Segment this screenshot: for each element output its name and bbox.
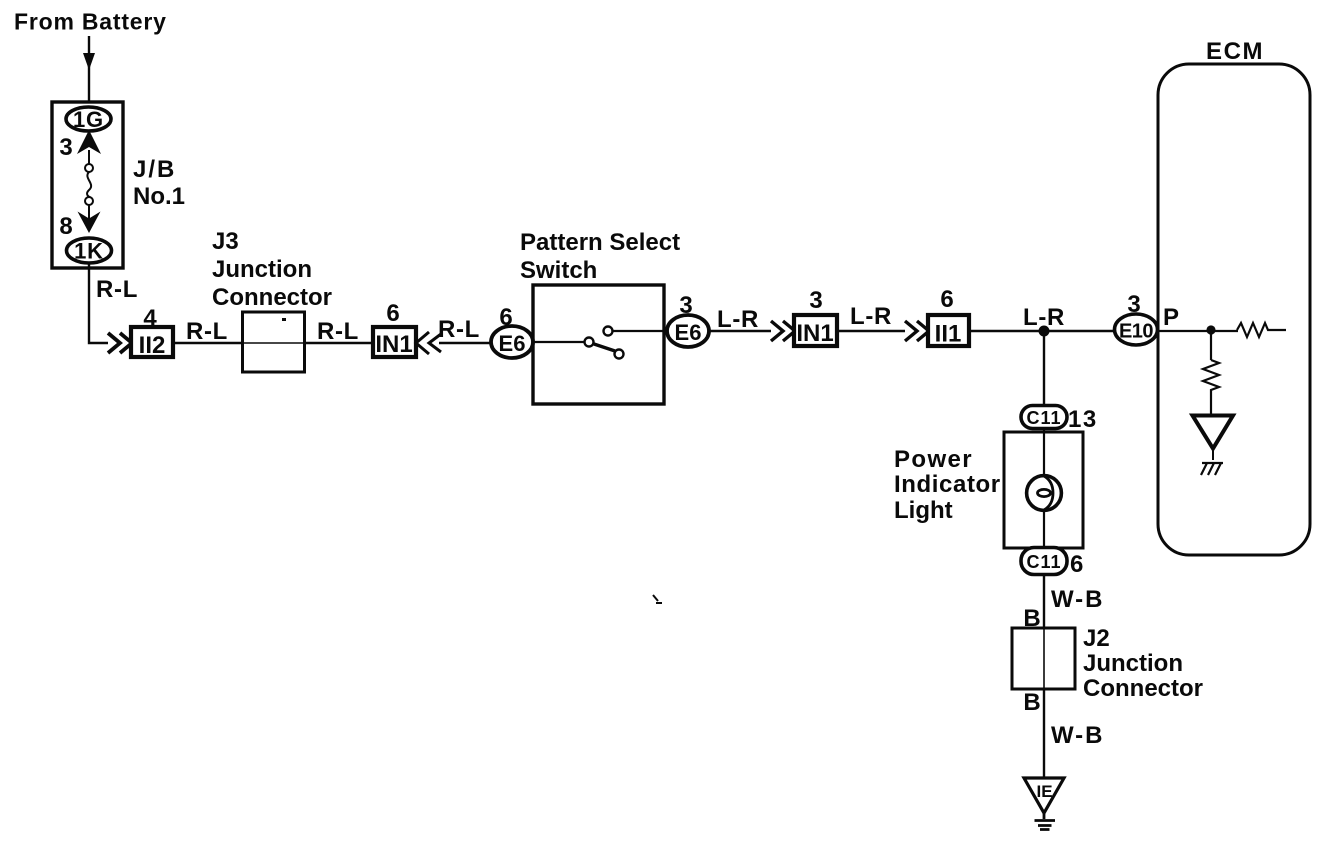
svg-text:3: 3 [59, 134, 72, 161]
svg-text:1G: 1G [73, 107, 104, 132]
svg-text:J3: J3 [212, 228, 239, 255]
svg-text:6: 6 [940, 286, 953, 313]
svg-text:C11: C11 [1026, 552, 1061, 572]
connector terminal C11 (bottom) [1021, 548, 1067, 575]
connector terminal E6 (left) [491, 326, 533, 358]
circuit breaker element wire [88, 150, 90, 164]
svg-text:L-R: L-R [850, 303, 892, 330]
chassis ground marks 777 [1201, 463, 1223, 475]
svg-text:IN1: IN1 [375, 331, 412, 358]
svg-text:From Battery: From Battery [14, 9, 167, 35]
connector terminal C11 (top) [1021, 406, 1067, 429]
svg-text:3: 3 [809, 287, 822, 314]
splice arrow into II1 [905, 321, 929, 341]
splice arrow out of IN1 [416, 332, 441, 354]
diode/output stage triangle [1193, 416, 1234, 449]
svg-text:W-B: W-B [1051, 722, 1105, 749]
power indicator light box [1004, 432, 1083, 548]
svg-text:No.1: No.1 [133, 183, 185, 210]
svg-text:II2: II2 [139, 332, 166, 359]
connector IN1 (right) [794, 315, 837, 346]
svg-text:R-L: R-L [186, 318, 228, 345]
wire E6 to IN1 (L-R) [709, 330, 771, 332]
svg-text:R-L: R-L [317, 318, 359, 345]
junction connector J2 [1043, 628, 1045, 689]
connector terminal 1G [66, 107, 111, 131]
wire IN1 to II1 (L-R) [836, 330, 905, 332]
svg-text:Junction: Junction [1083, 650, 1183, 677]
svg-text:E6: E6 [499, 331, 526, 356]
resistor (vertical, ECM) [1203, 360, 1219, 417]
branch wire junction to C11 [1043, 336, 1045, 406]
wire II1 to E10 (L-R) [969, 330, 1115, 332]
splice arrow into IN1 [771, 321, 795, 341]
wire 1K down and right (R-L) [89, 263, 108, 343]
ground symbol [1035, 813, 1056, 830]
junction block J/B No.1 [52, 102, 123, 268]
junction node inside ECM [1206, 325, 1215, 334]
svg-text:ECM: ECM [1206, 38, 1264, 65]
svg-text:W-B: W-B [1051, 586, 1105, 613]
switch input wire [533, 341, 584, 343]
lamp bulb [1027, 476, 1062, 511]
svg-text:Power: Power [894, 446, 973, 473]
svg-text:J/B: J/B [133, 156, 176, 183]
svg-text:Light: Light [894, 497, 953, 524]
svg-text:1K: 1K [74, 239, 104, 264]
svg-text:J2: J2 [1083, 625, 1110, 652]
svg-text:B: B [1023, 689, 1040, 716]
junction node to C11 branch [1039, 326, 1050, 337]
ground point IE triangle [1024, 778, 1064, 813]
svg-text:6: 6 [1070, 551, 1083, 578]
svg-text:L-R: L-R [717, 306, 759, 333]
arrowhead on battery feed wire [83, 53, 95, 70]
svg-text:Switch: Switch [520, 257, 597, 284]
connector terminal 1K [67, 238, 112, 263]
switch output wire [613, 330, 667, 332]
stray mark [653, 595, 662, 603]
connector terminal E6 (right) [667, 315, 709, 347]
resistor (horizontal, ECM) [1237, 323, 1286, 337]
svg-text:Junction: Junction [212, 256, 312, 283]
connector terminal E10 [1115, 314, 1158, 345]
lamp wire through box [1043, 428, 1045, 548]
svg-text:Pattern Select: Pattern Select [520, 229, 680, 256]
wire J2 to ground (W-B) [1043, 689, 1045, 778]
svg-text:E6: E6 [675, 320, 702, 345]
circuit breaker arrow up [77, 130, 101, 154]
circuit breaker arrow down [78, 212, 101, 234]
wire triangle to chassis ground [1212, 448, 1214, 460]
svg-text:Indicator: Indicator [894, 471, 1001, 498]
lamp filament loop [1044, 476, 1053, 510]
svg-text:R-L: R-L [438, 316, 480, 343]
svg-text:Connector: Connector [212, 284, 332, 311]
switch lever [594, 344, 615, 351]
switch lower contact [615, 350, 624, 359]
connector II1 [928, 315, 969, 346]
wire from battery to J/B No.1 [88, 36, 90, 102]
svg-text:8: 8 [59, 213, 72, 240]
svg-text:R-L: R-L [96, 276, 138, 303]
connector II2 [131, 327, 173, 357]
svg-text:IN1: IN1 [796, 320, 833, 347]
speck near J3 [282, 318, 286, 321]
svg-text:6: 6 [386, 300, 399, 327]
svg-text:IE: IE [1036, 782, 1052, 801]
svg-text:E10: E10 [1119, 321, 1153, 343]
wire junction down to resistor [1210, 331, 1212, 360]
connector IN1 [373, 327, 416, 357]
svg-text:13: 13 [1068, 406, 1098, 433]
splice arrow into II2 [108, 333, 132, 353]
wire C11 to J2 (W-B) [1043, 575, 1045, 628]
ECM box [1158, 64, 1310, 555]
svg-text:P: P [1163, 304, 1179, 331]
switch output contact [604, 327, 613, 336]
switch common contact [585, 338, 594, 347]
wire II2 to J3 (R-L) [173, 342, 242, 344]
svg-text:C11: C11 [1026, 408, 1061, 428]
svg-text:Connector: Connector [1083, 675, 1203, 702]
wire inside ECM [1158, 330, 1238, 332]
wire J3 to IN1 (R-L) [304, 342, 373, 344]
junction connector J3 [242, 342, 304, 344]
wire IN1 to E6 (R-L) [439, 342, 492, 344]
pattern select switch box [533, 285, 664, 404]
svg-text:II1: II1 [935, 321, 962, 348]
